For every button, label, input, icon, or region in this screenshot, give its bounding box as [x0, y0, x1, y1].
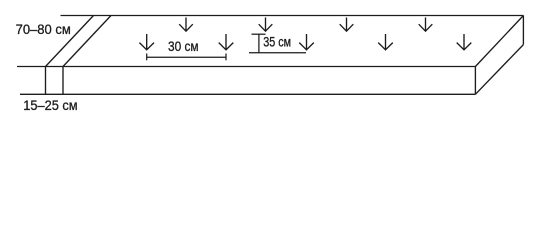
svg-text:70–80 см: 70–80 см [16, 22, 71, 37]
svg-text:15–25 см: 15–25 см [23, 98, 77, 113]
svg-text:30 см: 30 см [168, 39, 199, 54]
svg-text:35 см: 35 см [263, 35, 291, 50]
